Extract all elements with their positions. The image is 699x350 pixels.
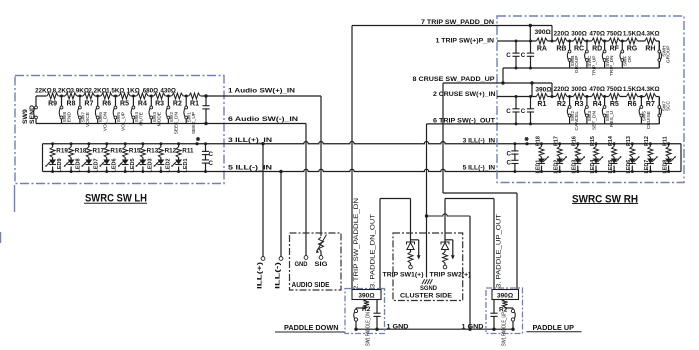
svg-text:R12: R12 [165,148,177,155]
svg-text:390Ω: 390Ω [535,87,552,94]
svg-text:R5: R5 [610,101,619,108]
svg-text:1KΩ: 1KΩ [127,87,140,94]
svg-text:R9: R9 [48,101,57,108]
svg-text:MUTE: MUTE [138,112,144,126]
svg-text:LED5: LED5 [608,160,614,174]
svg-text:R13: R13 [147,148,159,155]
svg-text:R2: R2 [557,101,566,108]
svg-text:C: C [506,52,511,59]
svg-text:RF: RF [610,45,620,52]
svg-text:2 CRUSE SW(+)_IN: 2 CRUSE SW(+)_IN [433,91,496,98]
svg-text:R11: R11 [182,148,194,155]
svg-text:PADDLE UP: PADDLE UP [533,323,575,332]
svg-text:390Ω: 390Ω [497,292,514,299]
svg-text:OK: OK [627,55,633,63]
svg-text:LED8: LED8 [76,158,82,172]
svg-text:1 Audio SW(+)_IN: 1 Audio SW(+)_IN [228,88,295,95]
svg-text:CLUSTER SIDE: CLUSTER SIDE [400,293,453,300]
svg-text:MODE: MODE [156,112,162,126]
svg-text:750Ω: 750Ω [607,86,623,93]
svg-text:LED6: LED6 [626,160,632,174]
svg-text:R17: R17 [554,136,560,146]
svg-text:R14: R14 [608,136,614,146]
svg-text:LED8: LED8 [662,160,668,174]
svg-text:8.2KΩ: 8.2KΩ [53,87,71,94]
svg-text:4.3KΩ: 4.3KΩ [641,86,659,93]
svg-text:220Ω: 220Ω [554,30,570,37]
svg-text:LED9: LED9 [57,158,63,172]
svg-text:LED3: LED3 [148,158,154,172]
svg-text:SIG: SIG [315,261,328,268]
svg-text:C: C [209,160,214,167]
svg-text:750Ω: 750Ω [607,30,623,37]
svg-text:R3: R3 [575,101,584,108]
svg-text:6 TRIP SW(-)_OUT: 6 TRIP SW(-)_OUT [433,117,496,124]
svg-text:R3: R3 [155,101,164,108]
svg-text:R7: R7 [646,101,655,108]
svg-text:VOL_UP: VOL_UP [121,112,127,131]
svg-text:C: C [209,151,214,158]
svg-text:END: END [67,111,73,122]
svg-text:R15: R15 [129,148,141,155]
svg-text:SCC: SCC [666,100,672,111]
svg-text:GROUP: GROUP [574,56,580,74]
svg-text:C: C [521,52,526,59]
svg-text:CANCEL: CANCEL [574,111,580,131]
svg-text:R4: R4 [593,101,602,108]
svg-text:1.5KΩ: 1.5KΩ [623,86,641,93]
svg-text:LED2: LED2 [554,160,560,174]
svg-text:R13: R13 [626,136,632,146]
svg-text:R2: R2 [173,101,182,108]
svg-text:R16: R16 [572,136,578,146]
svg-text:430Ω: 430Ω [160,87,176,94]
svg-text:C: C [507,150,512,157]
svg-text:RD: RD [592,45,602,52]
svg-text:R7: R7 [84,101,93,108]
svg-text:RH: RH [645,45,655,52]
svg-text:RB: RB [556,45,566,52]
svg-text:R18: R18 [535,136,541,146]
svg-text:TRIP SW1(+): TRIP SW1(+) [383,272,424,279]
svg-text:SW9: SW9 [22,109,29,124]
svg-text:GROUP: GROUP [666,46,672,64]
svg-text:ILL(-): ILL(-) [275,262,282,289]
svg-text:1.5KΩ: 1.5KΩ [106,87,124,94]
svg-text:4.3KΩ: 4.3KΩ [641,30,659,37]
svg-text:VOICE: VOICE [85,112,91,127]
svg-text:1 GND: 1 GND [387,323,409,330]
svg-text:SW1 PADDLE_DN: SW1 PADDLE_DN [366,312,372,346]
svg-text:C: C [506,108,511,115]
svg-text:R6: R6 [628,101,637,108]
svg-text:390Ω: 390Ω [535,29,552,36]
svg-text:680Ω: 680Ω [143,87,159,94]
svg-text:6 Audio SW(-)_IN: 6 Audio SW(-)_IN [228,116,298,123]
svg-text:2.2KΩ: 2.2KΩ [88,87,106,94]
svg-text:RES_U: RES_U [609,110,615,127]
svg-text:R6: R6 [102,101,111,108]
svg-text:LED7: LED7 [644,160,650,174]
svg-text:VOL_DN: VOL_DN [103,111,109,131]
svg-text:3. PADDLE_UP_OUT: 3. PADDLE_UP_OUT [497,214,503,288]
svg-text:5 ILL(-)_IN: 5 ILL(-)_IN [228,164,272,171]
svg-text:3. PADDLE_DN_OUT: 3. PADDLE_DN_OUT [371,214,377,288]
svg-text:TRIP SW2(+): TRIP SW2(+) [430,272,471,279]
svg-text:SET_DN: SET_DN [592,110,598,129]
svg-text:390Ω: 390Ω [358,292,375,299]
svg-text:RG: RG [627,45,638,52]
svg-text:300Ω: 300Ω [571,86,587,93]
svg-text:RA: RA [537,45,547,52]
svg-text:LED3: LED3 [572,160,578,174]
svg-text:1 GND: 1 GND [462,323,484,330]
svg-text:R5: R5 [120,101,129,108]
svg-text:R8: R8 [67,101,76,108]
svg-text:1.5KΩ: 1.5KΩ [623,30,641,37]
svg-text:2. TRIP SW_PADDLE_DN: 2. TRIP SW_PADDLE_DN [354,198,360,290]
svg-text:R4: R4 [138,101,147,108]
svg-text:LED5: LED5 [130,158,136,172]
svg-text:R15: R15 [590,136,596,146]
svg-text:SEEK_DN: SEEK_DN [173,111,179,134]
svg-text:470Ω: 470Ω [589,86,605,93]
svg-text:R18: R18 [75,148,87,155]
svg-text:3 ILL(+)_IN: 3 ILL(+)_IN [228,137,272,144]
svg-text:220Ω: 220Ω [554,86,570,93]
svg-text:LED4: LED4 [590,160,596,174]
svg-text:SEEK_UP: SEEK_UP [191,112,197,134]
svg-text:R11: R11 [662,136,668,146]
svg-text:300Ω: 300Ω [571,30,587,37]
svg-text:R12: R12 [644,136,650,146]
svg-text:1 TRIP SW(+)P_IN: 1 TRIP SW(+)P_IN [436,37,495,44]
svg-text:SEND: SEND [29,105,36,124]
svg-text:AUDIO SIDE: AUDIO SIDE [292,282,330,289]
svg-text:22KΩ: 22KΩ [35,87,52,94]
svg-text:R1: R1 [537,101,546,108]
svg-text:LED2: LED2 [166,158,172,172]
svg-text:PADDLE DOWN: PADDLE DOWN [284,323,339,332]
svg-text:8 CRUSE SW_PADD_UP: 8 CRUSE SW_PADD_UP [413,76,495,83]
svg-text:R17: R17 [93,148,105,155]
svg-text:TRIP_UP: TRIP_UP [592,56,598,76]
svg-text:ILL(+): ILL(+) [257,262,264,289]
svg-text:R1: R1 [190,101,199,108]
svg-text:RC: RC [574,45,584,52]
svg-text:470Ω: 470Ω [589,30,605,37]
svg-text:LED6: LED6 [111,158,117,172]
svg-text:R19: R19 [56,148,68,155]
svg-text:LED1: LED1 [535,160,541,174]
svg-text:CRUISE: CRUISE [646,111,652,129]
svg-text:GND: GND [295,261,308,268]
svg-text:LED1: LED1 [183,158,189,172]
svg-text:TRIP_DN: TRIP_DN [609,55,615,76]
svg-text:LED7: LED7 [93,158,99,172]
svg-text:R16: R16 [110,148,122,155]
svg-text:C: C [507,160,512,167]
svg-text:C: C [521,108,526,115]
svg-text:SGND: SGND [420,285,437,292]
svg-text:SW1 PADDLE_UP: SW1 PADDLE_UP [502,311,508,346]
svg-text:3 ILL(-)_IN: 3 ILL(-)_IN [463,137,496,144]
svg-text:3.9KΩ: 3.9KΩ [71,87,89,94]
svg-text:5 ILL(-)_IN: 5 ILL(-)_IN [463,165,496,172]
